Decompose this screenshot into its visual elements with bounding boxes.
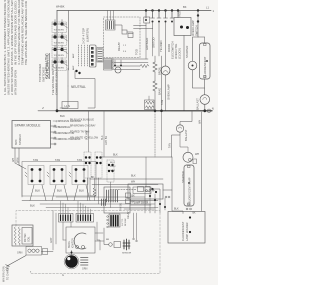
wire lamp line 3 [84,45,86,66]
wire lamp line 4 [87,45,89,66]
wire harness to right [150,189,160,196]
svg-text:⊸ TERMINAL: ⊸ TERMINAL [55,126,71,129]
wire left bus L2 [56,11,58,111]
valve switch V1 [25,166,44,185]
wire lamp bottom [204,79,206,88]
label starter [185,46,189,58]
node ballast rail junction [203,109,206,112]
svg-text:TAN: TAN [168,143,172,148]
svg-text:SWITCH: SWITCH [171,41,175,52]
label box L1N [62,102,78,109]
svg-text:WH BRN GRN: WH BRN GRN [3,266,6,282]
svg-text:BLK: BLK [131,175,136,178]
resistor boxed igniter [145,96,155,110]
door switch coil box [12,225,33,246]
wire rail drop right [161,112,163,151]
connector P2 comb [97,48,103,63]
wire harness 2 [114,62,148,64]
svg-text:BLK: BLK [60,114,65,118]
svg-text:WH: WH [199,120,202,124]
spark switch SW4 [52,58,68,71]
TOP-SCHEMATIC [38,4,215,118]
wire rail left thin [38,110,57,112]
wire rail drop left [154,112,156,158]
svg-text:GRY: GRY [50,237,53,243]
lamp switch box [128,184,163,199]
svg-text:BLK: BLK [35,189,40,193]
wire switch box right [163,157,183,214]
label box inner [123,45,127,53]
wire rail drop A [86,112,89,153]
enclosure oven outline [16,211,160,274]
wire cluster bus 2 [40,203,155,205]
wire BLK mid [90,175,163,180]
wire to starter2 [180,135,188,152]
svg-text:BLK: BLK [79,189,84,193]
svg-text:TAN: TAN [160,100,164,105]
wire block3 drops [97,222,100,250]
svg-text:WH-2: WH-2 [110,166,116,168]
label ballast2 [168,129,189,148]
node L1 label [56,4,209,9]
svg-text:FLUORESCENT: FLUORESCENT [203,56,207,77]
wire right mess [145,190,165,213]
svg-text:GRN: GRN [17,252,23,255]
grille comb [81,258,89,266]
spark switch SW3 [52,45,68,58]
svg-text:RELAY: RELAY [117,42,121,51]
svg-text:LAMP SW BK: LAMP SW BK [134,202,149,205]
label fluorescent2 [188,177,192,204]
svg-text:BR: BR [106,239,109,241]
label BLK bottom [174,208,179,211]
svg-text:BK-BLACK BU-BLUE: BK-BLACK BU-BLUE [70,119,94,122]
lamp switch terminals [165,196,170,198]
lamp oven [161,66,170,111]
connector P3 comb [106,20,116,30]
svg-text:OVEN LAMP: OVEN LAMP [191,20,195,36]
svg-text:TO CHASSIS: TO CHASSIS [7,265,10,280]
svg-text:GRN: GRN [82,268,88,271]
label BLK V2 [57,189,62,193]
label N left [41,107,45,109]
lamp holder box [168,212,205,244]
svg-text:DOOR: DOOR [167,44,171,52]
svg-text:BLK: BLK [101,135,104,140]
label broil assembly [68,238,75,248]
label starter2 [181,171,185,183]
wire box feed [145,157,147,187]
svg-text:YEL/RED: YEL/RED [159,40,163,52]
svg-text:BAKE: BAKE [158,88,162,95]
LOWER-DIAGRAM [3,112,206,283]
sensor chain [104,228,130,250]
svg-text:SCHEMATIC: SCHEMATIC [45,52,50,79]
node rail dots [154,110,157,113]
wire ballast2 down [172,132,181,157]
svg-text:RELAY: RELAY [127,211,130,219]
connector row under box [26,247,42,256]
svg-text:GRY/RED: GRY/RED [145,38,149,50]
svg-text:TOP BURN: TOP BURN [54,68,65,70]
svg-text:WH: WH [195,153,199,156]
wire starter to ballast [193,70,205,95]
svg-text:TOD: TOD [135,49,139,55]
wire drop 146 [144,11,150,26]
wire second igniter line [161,56,163,111]
svg-text:GRY BR: GRY BR [105,136,108,145]
wire bottom rail N [57,110,212,112]
limiter contact pair B [95,152,102,178]
node junction 2 [78,72,80,74]
resistor harness zigzag [140,64,149,67]
label TAN V3 [77,158,82,162]
svg-text:OVEN CTRL: OVEN CTRL [174,43,178,59]
svg-text:RED: RED [178,11,182,17]
svg-text:TAN: TAN [55,158,60,162]
label oven lamp switch [191,20,199,36]
label wire rows [110,162,116,172]
wire harness 3 [114,65,140,67]
connector hatch small [102,199,106,206]
wire lamp line 2 [81,45,83,66]
wire lamp line 1 [78,45,80,66]
wire switch return bus [68,11,70,71]
svg-text:THE APPLIANCE. 5. SEE MINI MAN: THE APPLIANCE. 5. SEE MINI MANUAL FOR MO… [24,0,28,65]
wire drop to harness 1 [145,26,147,60]
broil burner assembly [66,227,104,253]
label door switch [145,38,175,52]
legend row 3 [53,131,90,136]
svg-text:L1 N: L1 N [65,104,71,108]
label relay box [120,195,136,220]
wire ground diagonal [6,256,27,271]
node junction at bus bottom [75,70,77,72]
wire box to rail [183,36,185,111]
starter aux contact [193,159,197,164]
svg-text:STARTER: STARTER [185,46,189,58]
valve switch V3 [69,166,88,185]
svg-text:SPARK MODULE: SPARK MODULE [15,124,42,128]
svg-text:TAN: TAN [77,158,82,162]
wire drop 172 [170,11,174,23]
switch selector box [174,11,191,36]
svg-text:BLK: BLK [30,204,35,208]
svg-text:DS/TAN: DS/TAN [24,233,27,242]
ballast B2 [176,125,183,132]
svg-text:WH/BK: WH/BK [56,4,65,8]
legend row 2 [53,125,96,130]
limiter contact pair C [107,160,114,182]
label broil [158,66,162,75]
wire to ballast2 [180,112,192,126]
svg-text:S-Y TO: S-Y TO [122,219,124,226]
starter S2 [183,152,193,162]
label lamp ticks [72,53,75,70]
label ballast [196,98,200,110]
svg-text:(CLOCK): (CLOCK) [178,48,182,59]
label TAN V2 [55,158,60,162]
wire ctrl-out 2 [134,28,153,30]
label elec oven control [171,43,182,59]
ballast B1 [200,95,210,111]
svg-text:FLUORESCENT: FLUORESCENT [181,221,185,241]
svg-text:NEUTRAL: NEUTRAL [71,85,86,89]
wire relay links [115,25,122,30]
wire BLK long [100,154,172,158]
legend row 4 [53,137,99,142]
connector P4 comb [104,59,113,71]
spark module box [12,121,51,149]
svg-text:WITH DOOR OPEN: WITH DOOR OPEN [14,70,18,95]
svg-text:BK: BK [193,213,197,215]
svg-text:AMP: AMP [72,65,75,70]
svg-text:FLUORESCENT LAMP: FLUORESCENT LAMP [188,177,192,204]
wire neutral drop 1 [67,68,69,86]
label lamp sw [134,202,149,205]
spark switch SW1 [52,20,68,33]
node harness dots [151,188,157,193]
label coil box [24,233,31,242]
wire WH mid [92,181,158,185]
wire harness 4 [114,69,140,71]
bake igniter disc [64,251,79,269]
node left rail junction [56,109,59,112]
label lamps limiter [82,28,90,44]
wire cluster bus 4 [56,196,128,198]
starter S1 [188,11,198,70]
connector small aux [43,249,48,255]
label N [212,9,215,111]
label neutral [71,85,86,89]
svg-text:BLK: BLK [57,189,62,193]
valve assembly outline [22,162,96,197]
wire drop to harness 2 [152,29,154,57]
svg-text:BK: BK [183,5,187,9]
svg-text:BRN: BRN [17,158,20,163]
dashed harness row [110,189,137,191]
svg-text:WH: WH [131,181,135,184]
wire ctrl-out 1 [134,25,147,27]
svg-text:STARTER: STARTER [181,171,185,183]
relay contact K1 [122,30,127,34]
wire drop 159 [157,11,161,57]
svg-text:TOP BURN: TOP BURN [54,43,65,45]
node junction dots on top rail [145,9,199,22]
svg-text:(LIMITER): (LIMITER) [86,28,90,42]
schematic title underline [48,53,51,79]
svg-text:IGNITER: IGNITER [72,238,75,248]
svg-text:TAN/RED: TAN/RED [19,134,22,145]
wire spark module leads [15,148,26,197]
legend row 1 [53,119,94,124]
svg-text:AMP: AMP [72,53,75,58]
node mess dots [149,195,166,208]
node tube dot [206,60,208,62]
svg-text:TOP BURN: TOP BURN [54,30,65,32]
svg-text:BK-1: BK-1 [110,162,116,164]
svg-text:BRN: BRN [15,140,18,145]
svg-text:TOP BURN: TOP BURN [54,55,65,57]
svg-text:BLK: BLK [174,208,179,211]
svg-text:TAN: TAN [33,158,38,162]
label GRY [50,237,53,243]
label oven lamp [160,84,171,105]
svg-text:LAMP HOLDER: LAMP HOLDER [185,222,189,241]
svg-text:TAY/BK: TAY/BK [120,202,123,211]
wire harness 1 [114,58,148,60]
connector P1 [90,45,97,67]
relay connector box [104,187,131,213]
wire relay box outputs [124,197,154,209]
svg-text:DSI MOD: DSI MOD [111,58,115,70]
label TAN V1 [33,158,38,162]
svg-text:WH-WHITE YL-YELLOW: WH-WHITE YL-YELLOW [70,137,99,140]
label BLK under rail [60,114,65,118]
label sensor [106,239,132,255]
wire drop 152 [151,11,155,29]
LEGEND [12,119,99,149]
resistor broil ignitor [153,56,157,81]
wire connector to right [42,251,54,253]
wire drops to TB2 [61,201,91,214]
fluorescent lamp FL1 [198,37,210,79]
svg-text:G: G [62,274,64,277]
coil small [90,177,96,201]
connector dark comb [107,214,127,228]
label relay [111,42,139,70]
svg-text:BALLAST: BALLAST [184,129,188,141]
node N terminal [207,109,211,113]
svg-text:BK: BK [91,177,95,179]
label BRN ground [3,265,10,282]
NOTES-TEXT [3,0,59,95]
svg-text:OR/TOD: OR/TOD [152,38,156,48]
label BLK bus [30,204,35,208]
svg-text:ELEC: ELEC [171,52,175,59]
limiter contact pair A [84,152,91,178]
label BLK V3 [79,189,84,193]
label BLK V1 [35,189,40,193]
wire top rail L1 [57,10,211,12]
svg-text:BALLAST: BALLAST [196,98,200,110]
label bake [158,88,162,95]
svg-text:COIL: COIL [29,236,31,242]
harness connector small 1 [138,187,144,192]
label red [178,11,182,17]
svg-text:BLK WH: BLK WH [86,131,89,140]
spark module terminals [51,125,57,145]
terminals below fluor2 [186,208,196,214]
label GRN2 [82,268,88,271]
wire cluster bus 1 [22,185,158,201]
wire TB2 to assembly [63,222,71,240]
spark switch SW2 [52,33,68,46]
wire right side WH [195,112,202,211]
label lead wires [12,158,20,163]
wire P3 stubs to rail [108,11,114,21]
oven control dashed box [104,17,141,58]
terminal block TB2 [59,214,74,223]
oven ignitor cluster [114,60,122,73]
valve switch V2 [47,166,66,185]
wire relay box drops [133,213,138,242]
svg-text:RLY BK: RLY BK [125,218,127,226]
wire cluster bus 3 [46,207,158,209]
relay contact K2 [128,34,133,38]
svg-text:SENSOR: SENSOR [122,253,132,255]
harness connector small 2 [145,187,150,192]
svg-text:N: N [41,107,45,109]
fluorescent lamp FL2 [184,165,194,206]
label fluorescent [203,56,207,77]
wire limiter drops [88,178,111,208]
resistor bake ignitor [153,81,157,111]
wire rail drop B [101,112,108,158]
svg-text:BLK: BLK [113,154,118,157]
stray mark [30,271,64,278]
svg-text:WH: WH [12,158,15,162]
wire neutral to rail [60,86,68,108]
wire neutral drop 2 [75,71,95,108]
label GRN [17,252,23,255]
svg-text:N: N [212,107,214,111]
wire left edge drops [53,211,56,251]
terminal block TB3 [76,214,94,223]
wire drop 165 [164,11,168,67]
svg-text:OVEN LAMP: OVEN LAMP [167,84,171,100]
svg-text:BR-BROWN GY-GRAY: BR-BROWN GY-GRAY [70,125,96,128]
